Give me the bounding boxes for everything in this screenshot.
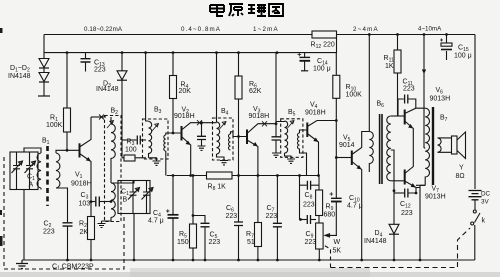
transformer B4 primary winding — [217, 122, 220, 154]
transistor V2 — [181, 126, 183, 141]
wire: B5 secondary top to V4 base — [300, 130, 308, 133]
transformer B1 ferrite rod (dashed) — [46, 146, 49, 206]
wire: V1 collector into B2 with core mark — [91, 116, 106, 118]
resistor R9 — [318, 176, 320, 191]
svg-text:0.4~0.8mA: 0.4~0.8mA — [181, 26, 221, 33]
svg-text:1~2mA: 1~2mA — [253, 26, 279, 33]
svg-text:223: 223 — [94, 67, 106, 74]
svg-text:9018H: 9018H — [249, 113, 270, 120]
node: rail to B3 — [144, 51, 147, 54]
capacitor C13 — [85, 53, 87, 59]
transformer B2 osc winding bottom with tap — [111, 183, 115, 217]
resistor R7 — [257, 176, 259, 223]
wire: B6 secondary top to V6 base — [391, 115, 404, 117]
capacitor C3 — [91, 201, 95, 203]
potentiometer W — [316, 223, 324, 249]
wire: B6 secondary center tap to D4 — [391, 150, 394, 191]
svg-text:3V: 3V — [481, 199, 490, 206]
capacitor C12 — [394, 192, 404, 194]
char 电 — [210, 4, 224, 16]
wire: V7 emitter to rail — [419, 185, 421, 260]
svg-text:4.7 μ: 4.7 μ — [347, 203, 363, 210]
ground symbol (B3) — [153, 161, 161, 165]
svg-text:9018H: 9018H — [174, 113, 195, 120]
svg-text:2K: 2K — [80, 229, 89, 236]
svg-text:9018H: 9018H — [71, 181, 92, 188]
char 图 — [269, 4, 283, 16]
transistor V3 — [246, 130, 248, 145]
node: C15 tap on top wire — [445, 33, 448, 36]
transformer B6 core — [379, 114, 381, 184]
transformer B3 primary winding — [149, 122, 152, 158]
svg-text:100 μ: 100 μ — [313, 66, 331, 73]
transformer B5 secondary winding — [298, 133, 300, 150]
ground rail (bottom) — [22, 259, 475, 261]
resistor R12 (inline, horizontal) — [312, 31, 337, 38]
node dots on ground rail — [66, 259, 69, 262]
transformer B4 shield box (dashed) — [213, 118, 234, 160]
transistor V1 — [79, 143, 81, 157]
transformer B6 secondary winding (center tapped) — [387, 116, 391, 181]
svg-text:4.7 μ: 4.7 μ — [148, 218, 164, 225]
svg-text:223: 223 — [403, 86, 415, 93]
gang capacitor C1-A box — [10, 152, 38, 190]
wire: B7 secondary to speaker — [438, 138, 452, 152]
wire: left drop from top wire to supply rail — [43, 35, 45, 53]
wire: supply drop to B6 primary — [368, 35, 370, 132]
svg-text:103: 103 — [79, 201, 91, 208]
transformer B3 secondary winding — [164, 135, 166, 151]
svg-text:W: W — [334, 239, 341, 246]
transistor V6 — [404, 110, 406, 125]
core adjust arrow in B4 — [220, 122, 227, 130]
capacitor C11 — [398, 99, 404, 116]
dashed link: W switch to K — [331, 228, 471, 268]
wire: AGC bus left end to C8 branch — [298, 174, 301, 177]
transformer B3 shield box (dashed) — [143, 119, 169, 159]
transformer B7 core — [432, 107, 434, 185]
svg-text:62K: 62K — [249, 88, 262, 95]
diode D3 — [121, 51, 124, 54]
core adjust arrow in B2 — [107, 121, 114, 129]
svg-text:8Ω: 8Ω — [456, 173, 465, 180]
svg-text:Y: Y — [459, 165, 464, 172]
capacitor C14 (electrolytic) — [304, 53, 306, 57]
wire: B3 secondary bottom down to AGC wire — [165, 151, 167, 176]
node: rail to R1 — [66, 51, 69, 54]
svg-text:223: 223 — [303, 202, 315, 209]
variable capacitor C1-A section2 (trimmer) — [26, 152, 33, 190]
ground symbol (B2) — [98, 221, 106, 228]
svg-text:223: 223 — [43, 229, 55, 236]
wire: B1 secondary top to V1 base — [56, 150, 79, 153]
bottom gray scan band — [0, 272, 500, 277]
node: rail to R4 — [172, 51, 175, 54]
svg-text:223: 223 — [266, 213, 278, 220]
wire: C1A top to B1 — [24, 148, 41, 153]
svg-text:9014: 9014 — [339, 142, 355, 149]
svg-text:100K: 100K — [46, 122, 63, 129]
dashed gang coupling C1 — [4, 157, 124, 269]
wire: B7 center tap to supply — [424, 147, 425, 149]
gang capacitor C1-B box — [118, 181, 150, 214]
resistor R10 — [335, 53, 337, 76]
resistor R1 — [66, 53, 68, 108]
ground symbol (B4 tank) — [198, 146, 206, 150]
AGC / emitter bus wire — [167, 175, 207, 177]
char 理 — [248, 5, 266, 16]
svg-text:223: 223 — [305, 239, 317, 246]
battery DC 3V — [469, 191, 482, 200]
wire: B2 bottom winding top to C1B — [111, 181, 134, 184]
wire: battery+ top distribution wire — [44, 34, 312, 36]
resistor R6 — [238, 53, 240, 76]
wire: R12 right end down to filtered rail — [336, 35, 338, 53]
svg-text:A: A — [29, 182, 34, 189]
capacitor C15 (electrolytic) — [446, 35, 448, 44]
svg-text:100K: 100K — [346, 92, 363, 99]
transistor V7 — [404, 170, 406, 185]
node: rail to B5 — [276, 51, 279, 54]
capacitor (B5 tank) — [272, 137, 281, 140]
variable capacitor C1-B section2 (trimmer) — [143, 181, 150, 214]
svg-text:223: 223 — [209, 239, 221, 246]
svg-text:9013H: 9013H — [430, 96, 451, 103]
wire: rail down to B3 primary — [146, 53, 149, 121]
svg-text:B: B — [123, 197, 128, 204]
capacitor C4 (electrolytic) — [172, 174, 175, 177]
svg-text:51: 51 — [247, 239, 255, 246]
wire: C1A bottom to ground rail — [23, 190, 25, 261]
svg-text:DC: DC — [481, 191, 491, 198]
svg-text:9013H: 9013H — [425, 194, 446, 201]
svg-text:5K: 5K — [333, 248, 342, 255]
svg-text:20K: 20K — [179, 88, 192, 95]
potentiometer W wiper arrow — [325, 234, 337, 237]
capacitor (B2/B3 coupling) — [122, 139, 137, 141]
transformer B7 primary winding (center tapped) — [425, 108, 429, 185]
transformer B6 primary winding — [369, 132, 373, 173]
transistor V4 — [306, 123, 308, 138]
transformer B5 shield box (dashed) — [281, 119, 303, 158]
capacitor C7 — [276, 174, 279, 177]
wire: B3 primary bottom to ground — [149, 158, 157, 161]
wire: rail down to B4 primary top — [216, 53, 218, 122]
wire: filtered supply rail — [44, 52, 337, 54]
wire: B3 secondary top to V2 base — [166, 133, 181, 135]
svg-text:2~4mA: 2~4mA — [353, 26, 379, 33]
svg-text:C1 CBM223P: C1 CBM223P — [52, 264, 94, 272]
resistor R4 — [172, 53, 174, 76]
svg-text:4~10mA: 4~10mA — [418, 26, 442, 33]
capacitor C10 (electrolytic) — [331, 197, 342, 199]
variable capacitor C1-B section1 — [130, 181, 137, 214]
char 原 — [229, 4, 243, 16]
svg-text:IN4148: IN4148 — [96, 86, 119, 93]
ground symbol (main) — [16, 260, 28, 269]
node: R11 tap on top wire — [396, 33, 399, 36]
diodes D1 D2 chain — [43, 53, 45, 58]
node: B7 center tap feed on top wire — [423, 33, 426, 36]
svg-text:IN4148: IN4148 — [8, 73, 31, 80]
title 电原理图 (hand-drawn strokes) — [210, 4, 283, 16]
wire: B5 primary top tap — [276, 120, 285, 123]
transformer B1 secondary winding — [56, 153, 60, 188]
wire: B5 secondary bottom to AGC wire — [300, 150, 307, 176]
wire: B4 secondary top to V3 base — [231, 132, 247, 137]
variable capacitor C1-A section1 — [13, 152, 20, 190]
capacitor (B4 tank) — [201, 123, 203, 136]
ground symbol (B5) — [287, 159, 295, 163]
transformer B2 shield box (dashed) — [105, 116, 122, 222]
wire: B2 winding gap link — [110, 163, 112, 183]
core adjust arrow in B3 — [152, 124, 159, 132]
scan artifacts left edge — [0, 28, 3, 246]
transformer B5 primary winding — [285, 121, 288, 153]
svg-text:150: 150 — [177, 239, 189, 246]
wire: right edge battery wire — [474, 35, 476, 190]
capacitor C8 — [300, 184, 307, 186]
speaker Y — [452, 136, 458, 154]
capacitor C5 — [193, 216, 205, 223]
svg-text:100 μ: 100 μ — [454, 53, 472, 60]
capacitor C6 — [238, 176, 240, 222]
resistor R3 — [122, 157, 124, 159]
ground symbol (B5 tank) — [272, 153, 280, 157]
capacitor C2 — [63, 223, 73, 226]
wire: B2 winding bottom to ground — [102, 217, 112, 221]
core adjust arrow in B5 — [288, 121, 295, 129]
transformer B7 secondary winding — [438, 138, 442, 152]
node: rail to R6 — [237, 51, 240, 54]
wire: B6 secondary bottom to V7 base — [391, 180, 404, 182]
transformer B4 secondary winding — [229, 134, 231, 150]
svg-text:9018H: 9018H — [305, 110, 326, 117]
svg-text:223: 223 — [401, 210, 413, 217]
wire: B1 secondary bottom to C2 junction — [56, 188, 68, 222]
svg-text:k: k — [482, 218, 486, 225]
resistor R11 — [397, 35, 399, 51]
wire: B5 primary bottom to ground — [285, 153, 292, 159]
svg-text:680: 680 — [324, 212, 336, 219]
wire: B4 primary bottom to ground — [217, 154, 225, 161]
transistor V5 — [336, 157, 351, 159]
resistor R8 (inline) — [207, 172, 233, 179]
ground symbol (B4) — [220, 161, 228, 165]
capacitor C9 — [300, 219, 307, 221]
svg-text:223: 223 — [226, 213, 238, 220]
node: rail to B4 — [215, 51, 218, 54]
svg-text:1K: 1K — [385, 63, 394, 70]
transformer B1 primary winding — [37, 153, 41, 188]
svg-text:0.18~0.22mA: 0.18~0.22mA — [84, 26, 123, 33]
wire: C1B bottom to rail — [133, 214, 135, 261]
wire: rail down to B5/V3 collector junction — [275, 53, 277, 137]
diode D4 — [393, 189, 396, 192]
wire: drop to B7 center tap with current arrow — [423, 35, 425, 149]
wire: B1 primary bottom to box edge — [40, 188, 42, 190]
resistor R5 — [192, 174, 195, 177]
switch K — [473, 210, 476, 213]
transformer B2 osc winding top — [111, 117, 115, 163]
node: B6 supply tap on top wire — [368, 33, 371, 36]
resistor R2 — [90, 200, 93, 203]
svg-text:IN4148: IN4148 — [364, 238, 387, 245]
svg-text:100: 100 — [125, 147, 137, 154]
